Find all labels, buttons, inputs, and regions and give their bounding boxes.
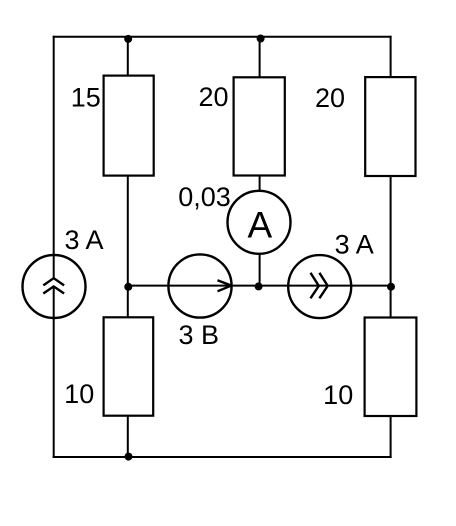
svg-text:20: 20 — [198, 82, 228, 112]
wire left column middle segment — [127, 176, 129, 318]
current source I1 3A — [23, 255, 86, 318]
wire left column bottom lead — [127, 416, 129, 457]
current source I2 3A — [288, 255, 351, 318]
resistor R2 20 — [234, 77, 285, 175]
voltage source E1 3V — [168, 254, 231, 317]
resistor R5 10 — [365, 318, 417, 417]
svg-text:15: 15 — [71, 83, 101, 113]
wire center column ammeter bottom lead — [259, 254, 261, 286]
wire left column top lead — [127, 37, 129, 76]
svg-text:3 A: 3 A — [335, 230, 374, 260]
node top left — [124, 35, 132, 43]
resistor R3 20 — [365, 77, 415, 176]
wire middle horizontal — [128, 285, 391, 287]
wire center column top lead — [259, 37, 261, 78]
svg-text:20: 20 — [315, 83, 345, 113]
wire right rail middle segment — [390, 176, 392, 318]
ammeter PA1 — [228, 191, 291, 254]
wire top rail — [53, 36, 392, 38]
wire right rail bottom segment — [390, 416, 392, 458]
node middle left — [124, 283, 132, 291]
wire right rail top segment — [390, 36, 392, 77]
wire center column ammeter lead — [259, 176, 261, 192]
node top center — [257, 35, 265, 43]
svg-text:A: A — [247, 204, 272, 245]
resistor R1 15 — [104, 76, 154, 176]
node middle center — [255, 282, 263, 290]
arrow head of E1 — [218, 280, 232, 291]
node bottom left — [125, 453, 133, 461]
svg-text:10: 10 — [323, 380, 353, 410]
wire left rail upper — [53, 36, 55, 279]
wire bottom rail — [53, 456, 392, 458]
svg-text:10: 10 — [64, 379, 94, 409]
node middle right — [387, 283, 395, 291]
wire left rail lower — [53, 286, 55, 458]
svg-text:3 В: 3 В — [179, 320, 220, 350]
svg-text:3 A: 3 A — [64, 225, 103, 255]
resistor R4 10 — [104, 317, 154, 415]
svg-text:0,03: 0,03 — [178, 182, 231, 212]
